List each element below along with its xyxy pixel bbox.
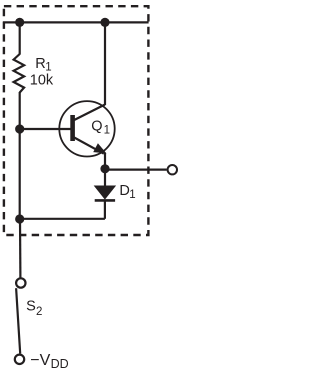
svg-text:Q: Q xyxy=(91,119,102,135)
node top-left junction dot xyxy=(15,18,24,27)
wire left rail lower (to switch) xyxy=(19,219,22,278)
dashed box subcircuit boundary xyxy=(4,6,149,235)
node top-right junction dot xyxy=(100,18,109,27)
svg-text:2: 2 xyxy=(36,306,42,318)
svg-text:S: S xyxy=(26,298,36,314)
svg-text:1: 1 xyxy=(104,124,110,136)
wire top rail xyxy=(3,21,149,23)
node base junction dot xyxy=(15,124,24,133)
wire left rail upper (to resistor) xyxy=(19,22,21,54)
switch S2 xyxy=(15,278,26,364)
node bottom-left junction dot xyxy=(15,214,24,223)
svg-text:DD: DD xyxy=(51,357,69,371)
output terminal xyxy=(168,165,177,174)
wire bottom return xyxy=(20,218,105,220)
svg-text:1: 1 xyxy=(129,189,135,201)
wire base xyxy=(20,128,71,130)
wire output xyxy=(105,169,167,171)
node emitter junction dot xyxy=(100,164,109,173)
wire left rail mid (resistor to base node) xyxy=(19,92,21,219)
wire emitter down xyxy=(104,153,106,187)
wire diode cathode down xyxy=(104,200,106,218)
svg-text:−V: −V xyxy=(30,352,50,369)
resistor R1 xyxy=(14,54,25,93)
diode D1 xyxy=(95,186,115,200)
transistor Q1 xyxy=(59,22,114,156)
svg-text:10k: 10k xyxy=(30,72,54,88)
